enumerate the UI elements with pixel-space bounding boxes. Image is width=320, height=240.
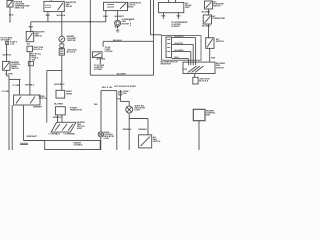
svg-text:SWITCH: SWITCH xyxy=(39,98,47,100)
svg-text:SYSTEM: SYSTEM xyxy=(94,69,102,71)
svg-text:TEMP SW: TEMP SW xyxy=(67,40,76,42)
svg-text:LIGHT: LIGHT xyxy=(104,138,111,140)
svg-text:GRN: GRN xyxy=(211,58,216,60)
svg-text:LT GRN: LT GRN xyxy=(12,85,20,87)
svg-text:LIGHT: LIGHT xyxy=(135,110,142,112)
svg-text:GRN/WHT: GRN/WHT xyxy=(26,136,37,138)
svg-text:WHT/BLU: WHT/BLU xyxy=(25,85,35,87)
svg-text:RED/BLU: RED/BLU xyxy=(139,129,148,131)
svg-text:BLU/WHT: BLU/WHT xyxy=(115,16,125,18)
svg-text:HORN: HORN xyxy=(66,93,72,95)
svg-text:BLU/BLK: BLU/BLK xyxy=(57,15,66,17)
svg-text:BLU/RED: BLU/RED xyxy=(175,50,184,52)
svg-text:BLU/RED: BLU/RED xyxy=(97,59,106,61)
svg-text:SWITCH: SWITCH xyxy=(213,5,221,7)
svg-text:SWITCH: SWITCH xyxy=(35,35,43,37)
svg-text:LT GRN/BLK: LT GRN/BLK xyxy=(49,134,61,136)
svg-text:TIMES: TIMES xyxy=(30,55,37,57)
svg-text:BLK & YEL: BLK & YEL xyxy=(102,87,113,89)
svg-text:YEL: YEL xyxy=(94,104,99,106)
svg-text:WHT/BLU: WHT/BLU xyxy=(54,84,65,86)
svg-text:BLU/RED: BLU/RED xyxy=(117,74,126,76)
svg-text:LT GRN/RED: LT GRN/RED xyxy=(64,134,76,136)
svg-text:UNIT: UNIT xyxy=(206,115,211,117)
svg-text:RED/BLU: RED/BLU xyxy=(123,129,132,131)
svg-text:UNIT: UNIT xyxy=(185,7,190,9)
svg-text:LT GRN: LT GRN xyxy=(2,91,10,93)
svg-text:BLU: BLU xyxy=(175,57,180,59)
svg-text:BLU: BLU xyxy=(103,16,108,18)
svg-text:CONTROL: CONTROL xyxy=(73,144,83,146)
svg-text:BLK: BLK xyxy=(115,26,120,28)
svg-text:GRN/WHT: GRN/WHT xyxy=(53,117,63,119)
svg-text:SYSTEM: SYSTEM xyxy=(171,26,180,28)
svg-text:BLU/YEL: BLU/YEL xyxy=(175,43,184,45)
svg-text:SWITCH: SWITCH xyxy=(153,141,161,143)
svg-text:BLU/BLK: BLU/BLK xyxy=(113,40,122,42)
svg-text:BLU: BLU xyxy=(177,16,182,18)
svg-text:BLU: BLU xyxy=(46,15,51,17)
svg-text:SYSTEM: SYSTEM xyxy=(105,51,113,53)
svg-text:BLU/WHT: BLU/WHT xyxy=(175,36,185,38)
svg-text:BLK: BLK xyxy=(29,26,34,28)
svg-text:BLK/YEL: BLK/YEL xyxy=(3,55,12,57)
svg-text:SWITCH: SWITCH xyxy=(11,68,19,70)
svg-text:BLU/RED: BLU/RED xyxy=(202,11,211,13)
svg-text:BLK: BLK xyxy=(9,14,14,16)
svg-text:SWITCH: SWITCH xyxy=(216,67,224,69)
svg-text:BLK: BLK xyxy=(161,16,166,18)
svg-text:GRN/WHT: GRN/WHT xyxy=(33,106,43,108)
svg-text:MOTOR: MOTOR xyxy=(122,23,130,25)
svg-text:BLU/RED: BLU/RED xyxy=(202,26,211,28)
svg-text:SWITCH: SWITCH xyxy=(216,41,224,43)
svg-text:RESISTOR: RESISTOR xyxy=(161,63,172,65)
svg-text:BLU/RED: BLU/RED xyxy=(54,103,63,105)
